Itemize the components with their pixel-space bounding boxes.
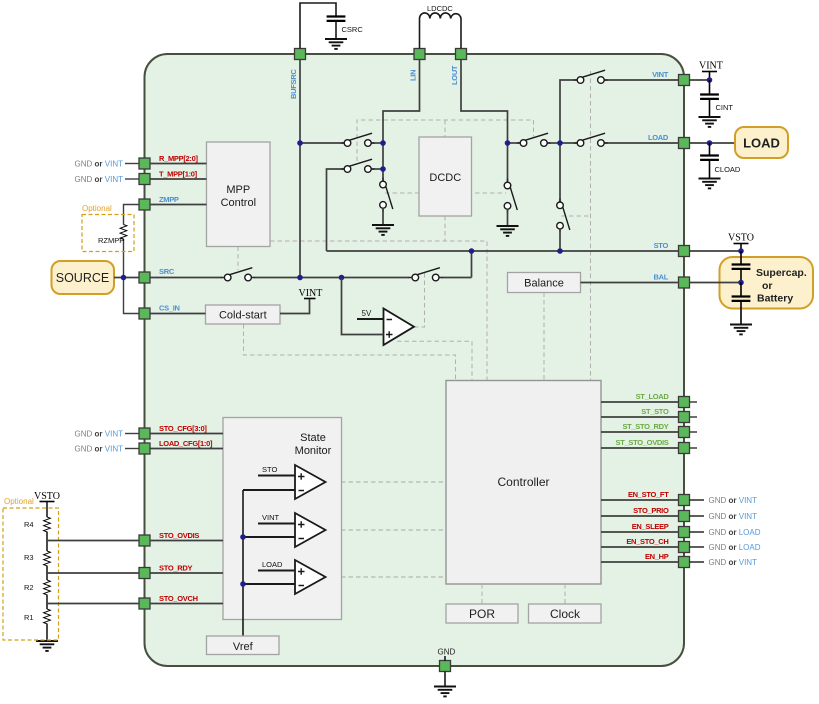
label BUFSRC (289, 69, 298, 99)
pin STO_OVCH (139, 598, 150, 609)
switch S7 LOAD (574, 133, 608, 146)
wire STO_OVDIS into monitor (150, 531, 223, 541)
ground divider chain (36, 641, 58, 651)
svg-text:STO_OVDIS: STO_OVDIS (159, 531, 199, 540)
wire dashed controller to POR (481, 584, 483, 604)
wire divider tap STO_OVCH (47, 603, 139, 605)
wire ZMPP into MPP (150, 195, 207, 205)
wire stub STO_CFG external (75, 430, 139, 439)
svg-text:GND or VINT: GND or VINT (75, 445, 124, 454)
wire LOAD pin to LOAD box (690, 142, 736, 144)
svg-text:CSRC: CSRC (342, 25, 364, 34)
svg-text:LOAD_CFG[1:0]: LOAD_CFG[1:0] (159, 439, 213, 448)
switch S8 VLOAD-STO (557, 199, 570, 233)
svg-text:R4: R4 (24, 520, 34, 529)
node LOUT row1 (505, 140, 511, 146)
capacitor CLOAD (700, 143, 741, 179)
wire ST_LOAD out (601, 392, 697, 402)
wire dashed controller to Clock (564, 584, 566, 604)
svg-text:BAL: BAL (653, 273, 668, 282)
switch S2 STO-LIN (341, 159, 375, 172)
svg-text:R_MPP[2:0]: R_MPP[2:0] (159, 154, 198, 163)
wire VLOAD node to VINT switch (560, 80, 679, 143)
wire BUFSRC vertical (299, 60, 301, 278)
wire STO_PRIO in (601, 506, 679, 516)
label BAL pin (653, 273, 668, 282)
wire GND pin to ground (444, 656, 446, 687)
svg-text:ST_STO_RDY: ST_STO_RDY (622, 422, 668, 431)
pin LIN (414, 49, 425, 60)
switch S6 VINT (574, 70, 608, 83)
label STO pin (654, 241, 669, 250)
wire stub EN_SLEEP external (690, 528, 761, 537)
pin STO_OVDIS (139, 535, 150, 546)
op-amp 5V comparator (342, 278, 415, 346)
svg-text:POR: POR (469, 607, 495, 621)
box State Monitor (223, 418, 342, 620)
pin STO_CFG (139, 428, 150, 439)
switch S10 SRC boost (409, 268, 443, 281)
wire stub EN_STO_CH external (690, 543, 761, 552)
box POR (446, 604, 518, 623)
op-amp comparator LOAD (243, 560, 326, 594)
ground CLOAD (699, 179, 721, 189)
svg-text:GND or VINT: GND or VINT (75, 430, 124, 439)
svg-text:GND or LOAD: GND or LOAD (709, 543, 761, 552)
resistor RZMPP (98, 225, 127, 246)
pin ST_STO (679, 412, 690, 423)
wire ST_STO_OVDIS out (601, 438, 697, 448)
net rail VSTO right (728, 233, 754, 252)
svg-text:or: or (762, 280, 773, 292)
svg-text:STO: STO (654, 241, 669, 250)
wire T_MPP into MPP (150, 170, 207, 180)
svg-text:LDCDC: LDCDC (427, 4, 453, 13)
pin STO_PRIO (679, 511, 690, 522)
svg-text:VINT: VINT (652, 70, 669, 79)
wire LOUT vertical (461, 60, 508, 185)
svg-text:T_MPP[1:0]: T_MPP[1:0] (159, 170, 198, 179)
wire R2-R1 (46, 596, 48, 609)
wire stub R_MPP external (75, 160, 139, 169)
svg-text:Battery: Battery (757, 293, 793, 305)
box MPP Control (207, 142, 271, 247)
svg-text:EN_HP: EN_HP (645, 552, 669, 561)
wire control dashed cold-start (244, 324, 456, 381)
wire control dashed 5V comparator to SRC switch (414, 271, 425, 327)
wire SOURCE to SRC pin (114, 277, 139, 279)
svg-text:GND or VINT: GND or VINT (709, 496, 758, 505)
svg-text:ST_LOAD: ST_LOAD (636, 392, 670, 401)
svg-text:GND or VINT: GND or VINT (709, 512, 758, 521)
svg-text:LOUT: LOUT (450, 65, 459, 85)
op-amp comparator VINT (243, 513, 326, 547)
svg-text:LIN: LIN (409, 70, 418, 81)
resistor R3 (24, 551, 50, 567)
node VINT junction (707, 77, 713, 83)
pin ST_STO_OVDIS (679, 443, 690, 454)
pin ZMPP (139, 199, 150, 210)
node vref comp2 (240, 534, 246, 540)
wire STO_RDY into monitor (150, 564, 223, 574)
svg-text:STO_RDY: STO_RDY (159, 564, 192, 573)
capacitor CINT (700, 80, 733, 117)
svg-text:MPP: MPP (226, 184, 250, 196)
switch S3 LIN to ground (380, 178, 393, 212)
node BUFSRC row1 (297, 140, 303, 146)
node LOAD junction (707, 140, 713, 146)
svg-text:DCDC: DCDC (429, 172, 461, 184)
pin SRC (139, 272, 150, 283)
wire control dashed right column (562, 71, 591, 381)
svg-text:VINT: VINT (299, 288, 323, 299)
pin BAL (679, 277, 690, 288)
svg-text:BUFSRC: BUFSRC (289, 69, 298, 99)
svg-text:Control: Control (221, 197, 256, 209)
wire R3-R2 (46, 567, 48, 580)
wire LIN vertical (383, 60, 420, 184)
wire BAL pin to battery midpoint (690, 282, 742, 284)
capacitor supercap bottom cell (732, 283, 751, 325)
svg-text:VINT: VINT (262, 513, 280, 522)
wire divider tap STO_RDY (47, 572, 139, 574)
wire LOAD_CFG into monitor (150, 439, 223, 449)
switch S5 LOUT-VLOAD (517, 133, 551, 146)
wire R1 to ground (46, 625, 48, 641)
wire STO line (327, 250, 679, 252)
wire control dashed balance (543, 293, 545, 381)
svg-text:EN_SLEEP: EN_SLEEP (632, 522, 669, 531)
svg-text:5V: 5V (362, 309, 372, 318)
svg-text:GND or VINT: GND or VINT (75, 160, 124, 169)
svg-text:SOURCE: SOURCE (56, 271, 109, 285)
wire stub STO_PRIO external (690, 512, 758, 521)
svg-text:R1: R1 (24, 613, 34, 622)
svg-text:Monitor: Monitor (295, 445, 332, 457)
svg-text:SRC: SRC (159, 267, 175, 276)
optional dashed box RZMPP (82, 204, 134, 252)
svg-text:GND or VINT: GND or VINT (75, 175, 124, 184)
label LIN (409, 70, 418, 81)
svg-text:CLOAD: CLOAD (715, 165, 741, 174)
node LIN row1 (380, 140, 386, 146)
resistor R1 (24, 609, 50, 625)
wire control dashed gnd-switch link (385, 192, 506, 194)
label LOUT (450, 65, 459, 85)
svg-text:Supercap.: Supercap. (756, 267, 807, 279)
optional dashed box divider (3, 497, 59, 640)
wire ST_STO_RDY out (601, 422, 697, 432)
node SRC-BUFSRC (297, 275, 303, 281)
wire stub EN_HP external (690, 558, 758, 567)
wire EN_STO_FT in (601, 490, 679, 500)
box Clock (529, 604, 602, 623)
wire R_MPP into MPP (150, 154, 207, 164)
node SRC-5V (339, 275, 345, 281)
box Controller (446, 381, 601, 585)
chip body (145, 54, 685, 666)
wire stub T_MPP external (75, 175, 139, 184)
pin CS_IN (139, 308, 150, 319)
box SOURCE (52, 261, 115, 294)
svg-text:Optional: Optional (4, 497, 34, 506)
capacitor supercap top cell (732, 251, 751, 283)
wire switch to STO line (559, 229, 561, 251)
wire VLOAD to LOAD switch (560, 142, 679, 144)
box Vref (207, 636, 280, 655)
net rail VSTO left (34, 491, 60, 517)
wire divider tap STO_OVDIS (47, 540, 139, 542)
net rail VINT cold-start (280, 288, 322, 314)
wire EN_SLEEP in (601, 522, 679, 532)
capacitor CSRC (327, 17, 364, 40)
svg-text:LOAD: LOAD (648, 133, 669, 142)
pin VINT (679, 75, 690, 86)
wire STO pin to VSTO node (690, 250, 742, 252)
svg-text:VSTO: VSTO (728, 233, 754, 244)
wire R4-R3 (46, 533, 48, 551)
node VLOAD (557, 140, 563, 146)
wire ZMPP loop with RZMPP branch (124, 205, 140, 314)
ground LIN switch (372, 225, 394, 235)
op-amp comparator STO (243, 465, 326, 499)
svg-text:R2: R2 (24, 583, 34, 592)
svg-text:ZMPP: ZMPP (159, 195, 179, 204)
svg-text:STO_PRIO: STO_PRIO (633, 506, 669, 515)
ground GND pin (434, 687, 456, 697)
wire STO_OVCH into monitor (150, 594, 223, 604)
node LIN row2 (380, 166, 386, 172)
pin GND (440, 661, 451, 672)
wire control dashed top bus (357, 120, 534, 161)
resistor R2 (24, 580, 50, 596)
label VINT pin (652, 70, 669, 79)
svg-text:LOAD: LOAD (262, 560, 283, 569)
node SOURCE/RZMPP junction (121, 275, 127, 281)
wire EN_HP in (601, 552, 679, 562)
svg-text:Vref: Vref (233, 641, 254, 653)
svg-text:ST_STO: ST_STO (641, 407, 669, 416)
pin STO (679, 246, 690, 257)
wire STO_CFG into monitor (150, 424, 223, 434)
wire stub EN_STO_FT external (690, 496, 758, 505)
svg-text:VSTO: VSTO (34, 491, 60, 502)
wire CS_IN to Cold-start (150, 304, 206, 314)
wire ST_STO out (601, 407, 697, 417)
wire LOUT to VLOAD node (508, 142, 561, 144)
pin LOUT (456, 49, 467, 60)
svg-text:RZMPP: RZMPP (98, 236, 124, 245)
wire comparator outputs dashed (326, 482, 446, 577)
svg-text:CINT: CINT (716, 103, 734, 112)
svg-text:Optional: Optional (82, 204, 112, 213)
ground CINT (699, 117, 721, 127)
svg-text:VINT: VINT (699, 61, 723, 72)
svg-text:ST_STO_OVDIS: ST_STO_OVDIS (616, 438, 669, 447)
node vref comp3 (240, 581, 246, 587)
wire Balance to BAL pin (581, 282, 679, 284)
wire row2 STO riser to LIN (327, 169, 384, 251)
wire row1 BUFSRC to LIN (300, 142, 383, 144)
pin EN_HP (679, 557, 690, 568)
box Supercap or Battery (720, 257, 814, 309)
svg-text:GND: GND (438, 648, 456, 657)
wire stub LOAD_CFG external (75, 445, 139, 454)
box DCDC (419, 137, 472, 216)
svg-text:GND or VINT: GND or VINT (709, 558, 758, 567)
svg-text:R3: R3 (24, 553, 34, 562)
pin EN_STO_CH (679, 542, 690, 553)
svg-text:STO: STO (262, 465, 277, 474)
pin LOAD_CFG (139, 443, 150, 454)
svg-text:GND or LOAD: GND or LOAD (709, 528, 761, 537)
inductor LDCDC (420, 4, 462, 49)
switch S9 SRC input (221, 268, 255, 281)
svg-text:EN_STO_FT: EN_STO_FT (628, 490, 669, 499)
ground CSRC (325, 39, 347, 49)
pin T_MPP (139, 174, 150, 185)
switch S4 LOUT to ground (504, 179, 517, 213)
switch S1 BUFSRC-LIN (341, 133, 375, 146)
resistor R4 (24, 517, 50, 533)
pin EN_SLEEP (679, 527, 690, 538)
wire EN_STO_CH in (601, 537, 679, 547)
node SRC riser STO (469, 248, 475, 254)
pin BUFSRC (295, 49, 306, 60)
net rail VINT top-right (690, 61, 723, 81)
svg-text:Cold-start: Cold-start (219, 310, 267, 322)
node VLOAD-STO (557, 248, 563, 254)
box Balance (508, 273, 581, 293)
svg-text:CS_IN: CS_IN (159, 304, 180, 313)
ground supercap (730, 325, 752, 335)
wire SRC line (150, 251, 472, 278)
pin EN_STO_FT (679, 495, 690, 506)
ground LOUT switch (497, 226, 519, 236)
node BAL junction (738, 280, 744, 286)
pin LOAD (679, 138, 690, 149)
pin ST_STO_RDY (679, 427, 690, 438)
svg-text:STO_CFG[3:0]: STO_CFG[3:0] (159, 424, 207, 433)
wire VLOAD down to STO switch (559, 143, 561, 202)
wire control dashed comparator enable (397, 341, 472, 380)
svg-text:Clock: Clock (550, 607, 581, 621)
pin ST_LOAD (679, 397, 690, 408)
svg-text:EN_STO_CH: EN_STO_CH (626, 537, 668, 546)
svg-text:STO_OVCH: STO_OVCH (159, 594, 198, 603)
pin STO_RDY (139, 568, 150, 579)
pin R_MPP (139, 158, 150, 169)
box Cold-start (206, 305, 281, 324)
node STO/VSTO junction (738, 248, 744, 254)
wire BUFSRC to CSRC (300, 3, 336, 49)
label LOAD pin (648, 133, 669, 142)
label GND pin (438, 648, 456, 657)
svg-text:LOAD: LOAD (743, 136, 780, 151)
wire control dashed MPP bus (238, 216, 487, 381)
svg-text:Controller: Controller (497, 475, 549, 489)
box LOAD (735, 127, 788, 158)
svg-text:Balance: Balance (524, 278, 564, 290)
wire LOUT switch to ground (507, 209, 509, 226)
wire LIN switch to ground (382, 208, 384, 225)
svg-text:State: State (300, 432, 326, 444)
wire Vref vertical (242, 490, 244, 636)
